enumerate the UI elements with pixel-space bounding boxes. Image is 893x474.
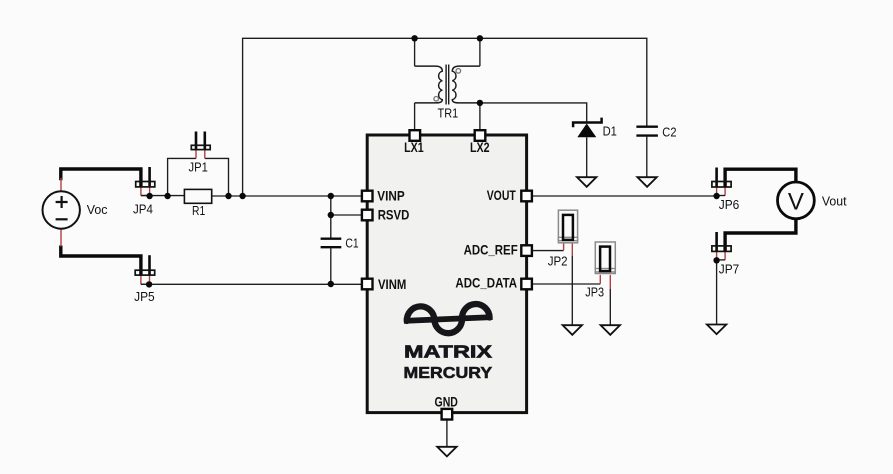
voltage source Voc <box>43 191 108 228</box>
wire C2 to ground <box>646 137 648 178</box>
thick wire voltmeter top <box>725 169 796 187</box>
red stubs JP6 <box>717 187 726 196</box>
svg-text:MATRIX: MATRIX <box>404 341 492 361</box>
jumper JP3 <box>585 242 615 299</box>
wire VINM main <box>141 283 362 285</box>
svg-text:LX1: LX1 <box>404 140 424 155</box>
wire JP7 to ground <box>716 260 718 324</box>
wire TR1 primary top <box>414 38 416 66</box>
jumper JP5 <box>134 255 155 304</box>
junction JP4 pin2 on VINP net <box>146 193 152 199</box>
wire C1 branch <box>330 196 332 284</box>
red stubs JP2 <box>564 243 573 256</box>
wire D1 to ground <box>586 137 588 177</box>
transformer TR1 <box>415 65 480 121</box>
pin ADC_REF <box>521 245 532 256</box>
wire RSVD stub <box>331 214 362 216</box>
chip U1 body <box>367 135 526 413</box>
pin GND <box>442 409 453 420</box>
svg-text:RSVD: RSVD <box>378 208 410 223</box>
JP5 link <box>141 283 149 285</box>
ground GND <box>437 447 456 457</box>
svg-text:GND: GND <box>435 394 459 409</box>
red stubs JP5 <box>141 275 150 284</box>
red stubs JP3 <box>600 275 610 289</box>
voltmeter Vout <box>778 182 848 219</box>
thick wire Voc minus <box>61 246 141 276</box>
pin ADC_DATA <box>521 279 532 290</box>
junction R1 right / JP1 bracket right <box>225 193 231 199</box>
logo wave <box>403 303 493 335</box>
svg-text:JP7: JP7 <box>719 263 740 277</box>
svg-text:JP4: JP4 <box>133 203 153 217</box>
svg-text:JP2: JP2 <box>548 254 568 268</box>
ground JP7 <box>707 325 726 335</box>
pin RSVD <box>362 210 373 221</box>
svg-text:Voc: Voc <box>87 203 108 217</box>
capacitor C2 <box>636 126 676 140</box>
wire GND to ground <box>446 419 448 447</box>
svg-text:ADC_REF: ADC_REF <box>464 243 518 258</box>
svg-text:Vout: Vout <box>822 194 847 208</box>
junction JP5 pin2 on VINM net <box>146 281 152 287</box>
svg-text:MERCURY: MERCURY <box>404 365 493 382</box>
wire VINP main <box>141 195 362 197</box>
red stubs JP4 <box>141 187 150 196</box>
jumper JP7 <box>712 232 739 277</box>
svg-text:VINP: VINP <box>377 189 404 204</box>
junction TR1 primary on top bus <box>411 35 417 41</box>
jumper JP6 <box>712 168 739 213</box>
capacitor C1 <box>321 236 359 250</box>
svg-text:LX2: LX2 <box>470 140 490 155</box>
JP7 link <box>717 259 726 261</box>
wire top bus <box>243 38 647 196</box>
ground JP2 <box>563 325 582 335</box>
svg-text:D1: D1 <box>603 124 617 138</box>
svg-text:C2: C2 <box>662 126 676 140</box>
jumper JP4 <box>133 167 155 217</box>
junction RSVD tap on C1 branch <box>328 212 334 218</box>
junction TR1 secondary on top bus <box>477 35 483 41</box>
red stub Voc bottom <box>60 228 62 247</box>
wire JP2 to ground <box>571 256 573 326</box>
ground C2 <box>637 177 656 187</box>
junction C1 top on VINP net <box>328 193 334 199</box>
thick wire voltmeter bottom <box>725 219 796 252</box>
wire VOUT <box>532 195 717 197</box>
resistor R1 <box>184 189 211 218</box>
junction LX2 / D1 branch <box>477 100 483 106</box>
wire ADC_REF <box>532 250 564 252</box>
ground JP3 <box>601 325 620 335</box>
wire JP1 bracket <box>168 158 229 196</box>
pin LX1 <box>410 130 421 141</box>
pin VINP <box>362 191 373 202</box>
red stubs JP1 <box>196 150 205 159</box>
JP6 link <box>717 195 726 197</box>
svg-text:VOUT: VOUT <box>487 188 517 203</box>
wire ADC_DATA <box>532 283 601 285</box>
svg-text:ADC_DATA: ADC_DATA <box>455 276 517 291</box>
diode D1 zener <box>573 118 617 139</box>
svg-text:JP1: JP1 <box>189 160 208 174</box>
svg-text:JP5: JP5 <box>134 290 155 304</box>
svg-text:R1: R1 <box>192 204 205 218</box>
ground D1 <box>577 177 596 187</box>
svg-text:V: V <box>788 189 804 216</box>
svg-text:C1: C1 <box>345 236 358 250</box>
svg-text:VINM: VINM <box>378 277 406 292</box>
junction JP1 bracket left on VINP net <box>164 193 170 199</box>
svg-text:JP6: JP6 <box>719 198 740 212</box>
wire JP3 to ground <box>609 289 611 325</box>
junction JP6 on VOUT net <box>713 193 719 199</box>
jumper JP2 <box>548 210 578 268</box>
thick wire Voc plus <box>61 169 141 187</box>
wire TR1 secondary bottom to LX2 and D1 <box>480 103 587 130</box>
wire TR1 primary bottom to LX1 <box>414 103 416 130</box>
svg-text:TR1: TR1 <box>438 107 459 121</box>
red stubs JP7 <box>717 251 726 260</box>
pin VOUT <box>521 191 532 202</box>
pin VINM <box>362 279 373 290</box>
JP4 link <box>141 195 150 197</box>
junction top-bus tap on VINP net <box>239 193 245 199</box>
junction C1 bottom on VINM net <box>328 281 334 287</box>
red stub Voc top <box>60 178 62 192</box>
svg-text:JP3: JP3 <box>585 285 604 299</box>
pin LX2 <box>475 130 486 141</box>
wire TR1 secondary top <box>479 38 481 66</box>
junction JP7 node <box>713 257 719 263</box>
jumper JP1 <box>189 132 211 175</box>
